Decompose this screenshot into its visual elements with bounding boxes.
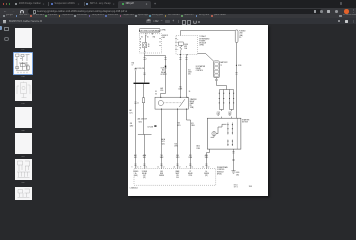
svg-text:C2: C2 [179, 166, 181, 168]
wire label A41 14YL [160, 87, 164, 92]
thumbnails [15, 28, 32, 48]
wire code labels row [134, 154, 208, 159]
sidebar [0, 26, 2, 31]
svg-text:18TN: 18TN [174, 145, 177, 147]
svg-text:14YL: 14YL [143, 157, 146, 159]
svg-text:MODULE: MODULE [217, 171, 224, 173]
sheet note [234, 184, 238, 188]
svg-text:14BL/: 14BL/ [217, 114, 221, 116]
svg-text:C1: C1 [146, 166, 148, 168]
svg-text:C1: C1 [137, 166, 139, 168]
toolbar [0, 8, 356, 14]
svg-text:86: 86 [155, 93, 157, 95]
svg-text:9: 9 [140, 166, 141, 168]
svg-text:87A: 87A [153, 36, 155, 39]
relay coil symbol [158, 100, 163, 105]
fuse F23 label [162, 35, 168, 39]
svg-text:FUSED: FUSED [134, 171, 139, 173]
svg-text:86: 86 [141, 37, 143, 39]
svg-text:K90: K90 [175, 143, 178, 145]
wire stub from sheet [135, 71, 137, 83]
node S116 [236, 65, 237, 66]
svg-text:A41: A41 [160, 87, 163, 90]
svg-text:S234: S234 [139, 122, 142, 124]
TIPM dashed box [176, 36, 198, 55]
svg-text:4: 4 [146, 59, 147, 61]
svg-text:B+: B+ [206, 171, 208, 173]
svg-text:14YL: 14YL [160, 90, 164, 92]
svg-text:12RD: 12RD [205, 157, 209, 159]
diode D1 [142, 98, 144, 103]
pin 30 TIPM bottom [186, 54, 189, 55]
net label I-P STARTER [188, 69, 192, 75]
relay out wire 3 [187, 109, 191, 169]
svg-text:(BK): (BK) [236, 175, 239, 177]
svg-text:SIG: SIG [176, 177, 178, 179]
wire relay output [144, 53, 146, 82]
svg-text:14YL/DB: 14YL/DB [148, 126, 154, 128]
wire branch mid [143, 84, 145, 134]
svg-text:A914: A914 [196, 145, 199, 148]
battery connector C105 [214, 61, 220, 78]
PCM pin function labels [134, 170, 209, 179]
svg-text:(ST): (ST) [188, 74, 191, 76]
pin 87 TIPM bottom [179, 54, 182, 55]
wire label K90 [177, 123, 180, 127]
svg-text:10: 10 [202, 166, 204, 168]
relay out wire 1 [161, 109, 163, 169]
starter feedback wire [207, 149, 210, 169]
svg-text:TIPM): TIPM) [190, 107, 195, 109]
svg-text:18DB: 18DB [189, 157, 193, 159]
svg-text:A41: A41 [130, 109, 133, 112]
motor armature circle [212, 132, 216, 136]
connector C2 on wire [134, 102, 136, 104]
svg-text:G100: G100 [236, 172, 240, 174]
svg-text:18TN: 18TN [177, 125, 180, 127]
svg-text:18DB: 18DB [191, 125, 195, 127]
svg-text:(ST): (ST) [205, 175, 208, 177]
connector on B+ wire [235, 73, 237, 75]
connector C1 on wire [143, 58, 145, 60]
starter relay box [155, 97, 188, 110]
relay K1 coil [143, 43, 150, 53]
connector C179 label [228, 112, 232, 117]
svg-text:A41A: A41A [161, 138, 165, 141]
svg-text:CONTROL: CONTROL [217, 169, 225, 171]
svg-text:30: 30 [189, 91, 191, 93]
relay armature dashes [165, 102, 182, 104]
svg-text:ST: ST [189, 171, 191, 173]
svg-text:(ST): (ST) [143, 177, 146, 179]
svg-text:RD: RD [239, 37, 241, 39]
svg-text:NEUT: NEUT [176, 173, 180, 175]
svg-text:C178: C178 [217, 112, 220, 114]
svg-text:K21: K21 [191, 123, 194, 125]
svg-text:ST-RUN: ST-RUN [142, 171, 147, 173]
wire TIPM to battery [198, 54, 214, 62]
svg-text:MODULE: MODULE [199, 43, 206, 45]
wire label A41 14YL [138, 118, 157, 129]
connector on branch [164, 58, 166, 60]
connectors above PCM [134, 164, 207, 166]
svg-text:30: 30 [147, 37, 149, 39]
svg-text:A41 14YL/OR: A41 14YL/OR [138, 118, 148, 121]
fusible link [235, 30, 245, 43]
pin labels above relay [155, 91, 190, 95]
splice S212 [138, 134, 152, 136]
svg-text:24: 24 [174, 166, 176, 168]
wire branch to relay coil [145, 56, 166, 98]
svg-text:FUSIBLE: FUSIBLE [239, 31, 245, 33]
svg-text:14BL/: 14BL/ [228, 114, 232, 116]
PCM dashed box [134, 169, 216, 186]
svg-text:87: 87 [177, 49, 179, 51]
svg-text:FUSE: FUSE [184, 44, 188, 46]
junction node [165, 66, 166, 67]
svg-text:S211: S211 [162, 143, 165, 145]
bookmarks [0, 14, 356, 18]
svg-text:14BR: 14BR [160, 157, 163, 159]
wire to PCM [144, 135, 146, 169]
svg-text:J1B: J1B [130, 123, 132, 125]
wire TIPM pin87 to relay [180, 55, 182, 97]
svg-text:I/P-STARTER: I/P-STARTER [196, 65, 206, 68]
svg-text:14BR: 14BR [178, 89, 183, 91]
svg-text:(TIPM): (TIPM) [199, 45, 204, 47]
svg-text:C179: C179 [228, 112, 231, 114]
PCM label [217, 166, 227, 176]
svg-text:GY: GY [229, 115, 231, 117]
svg-text:T40: T40 [179, 86, 182, 88]
svg-text:AUTO SHUT DOWN RELAY: AUTO SHUT DOWN RELAY [139, 29, 161, 32]
svg-text:ST-RUN: ST-RUN [161, 68, 167, 70]
svg-text:C2: C2 [137, 102, 139, 104]
pin numbers at PCM [132, 166, 210, 168]
ground wire [233, 149, 235, 171]
wire label K21 [191, 123, 195, 127]
splice bus to starter [220, 90, 234, 119]
svg-text:(+): (+) [220, 64, 222, 66]
svg-text:(IGN): (IGN) [134, 175, 138, 177]
svg-text:PARK: PARK [176, 170, 180, 173]
svg-text:3: 3 [132, 166, 133, 168]
svg-text:C7: C7 [132, 65, 134, 67]
svg-text:SENSE: SENSE [159, 175, 164, 177]
pdf toolbar [0, 18, 356, 24]
fuse M25 [178, 42, 188, 54]
svg-text:K90: K90 [177, 123, 180, 125]
svg-text:86: 86 [148, 46, 150, 48]
svg-text:B+: B+ [135, 173, 137, 175]
svg-text:LX4B0152: LX4B0152 [130, 188, 138, 190]
svg-text:POWERTRAIN: POWERTRAIN [217, 166, 227, 169]
svg-text:C2: C2 [163, 166, 165, 168]
svg-text:18TN: 18TN [176, 157, 179, 159]
svg-text:K90: K90 [176, 155, 179, 157]
net label ST-RUN A41 RELAY OUTPUT [160, 68, 166, 76]
relay label [190, 98, 198, 109]
svg-text:CONTROL: CONTROL [196, 70, 203, 72]
svg-text:8: 8 [186, 166, 187, 168]
svg-text:12RD: 12RD [196, 148, 200, 150]
svg-text:POWER: POWER [199, 40, 206, 42]
svg-text:18DB: 18DB [188, 71, 192, 73]
svg-text:8W-21: 8W-21 [234, 184, 238, 186]
svg-text:IGN: IGN [160, 171, 162, 173]
wire to PCM left [135, 84, 137, 169]
svg-text:RUN: RUN [160, 173, 163, 175]
svg-text:GY: GY [217, 115, 219, 117]
svg-text:K21: K21 [189, 155, 192, 157]
svg-text:S116: S116 [238, 65, 242, 67]
coil feed stub [145, 36, 147, 42]
svg-text:14YL: 14YL [162, 141, 166, 143]
svg-text:TOTALLY: TOTALLY [199, 35, 207, 38]
pin nodes [219, 93, 234, 104]
connector on wire [143, 73, 145, 75]
TIPM label [199, 35, 210, 46]
svg-text:(TIPM): (TIPM) [161, 30, 166, 32]
svg-text:87A: 87A [132, 61, 134, 64]
svg-text:30: 30 [177, 39, 179, 41]
svg-text:OUTPUT: OUTPUT [160, 74, 166, 76]
svg-text:C2: C2 [208, 166, 210, 168]
svg-text:OF: OF [190, 105, 192, 107]
svg-text:STARTER: STARTER [242, 119, 250, 122]
svg-text:85: 85 [155, 91, 157, 93]
svg-text:12RD: 12RD [130, 125, 134, 127]
relay switch contact [179, 99, 185, 107]
svg-text:BATTERY: BATTERY [220, 61, 228, 64]
svg-text:SW: SW [176, 175, 179, 177]
tab bar [0, 0, 356, 8]
title box ASD RELAY [139, 28, 161, 32]
starter motor M1 box [207, 118, 241, 149]
svg-text:C1: C1 [191, 166, 193, 168]
net label I/P STARTER RELAY CONTROL [196, 65, 206, 72]
label J1B 12RD [130, 123, 134, 127]
battery feed wire B+ [236, 43, 238, 119]
svg-text:LINK: LINK [239, 33, 242, 35]
svg-text:14YL: 14YL [130, 112, 133, 114]
battery label [220, 61, 228, 66]
svg-text:SENSE: SENSE [204, 173, 209, 175]
svg-text:FUSE 23: FUSE 23 [162, 35, 168, 37]
svg-text:MOTOR: MOTOR [242, 122, 249, 124]
svg-text:SHT 3: SHT 3 [234, 187, 238, 189]
svg-text:12: 12 [158, 166, 160, 168]
relay K1 dashed box [140, 33, 162, 53]
svg-text:M25: M25 [184, 46, 187, 48]
starter motor label [242, 119, 250, 124]
splice S211 [134, 83, 150, 84]
relay out wire 2 [177, 109, 179, 169]
solenoid contacts [228, 123, 232, 147]
power wire to fusible link [181, 31, 236, 36]
svg-text:OUT: OUT [143, 175, 146, 177]
svg-text:198: 198 [249, 186, 252, 188]
wire label T40 14BR [178, 86, 183, 90]
pdf page [128, 25, 268, 195]
svg-text:CTRL: CTRL [188, 175, 192, 177]
wire label A914 [196, 145, 200, 150]
ground G100 [231, 171, 239, 177]
wire label A41 left [130, 109, 133, 114]
svg-text:K21: K21 [188, 69, 191, 71]
pin label 87A [132, 61, 134, 66]
connector C178 label [217, 112, 221, 117]
svg-text:T40: T40 [160, 155, 163, 157]
wire label A41A [161, 138, 165, 145]
solenoid plunger steps [211, 124, 227, 137]
relay K1 side pins [140, 38, 160, 48]
svg-text:85: 85 [148, 44, 150, 46]
svg-text:86: 86 [177, 46, 179, 48]
wire TIPM pin30 to relay [186, 55, 188, 97]
svg-text:STARTER: STARTER [190, 98, 198, 101]
svg-text:14YL: 14YL [134, 157, 137, 159]
svg-text:(PCM): (PCM) [217, 174, 222, 176]
battery output wire [217, 78, 227, 90]
